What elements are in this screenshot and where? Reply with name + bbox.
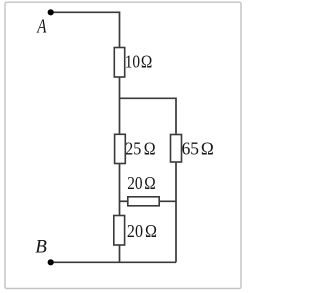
wire horizontal 20Ω to right branch junction [159, 200, 176, 202]
bottom rail wire from terminal B to right branch [54, 261, 177, 263]
resistor 25Ω body [115, 134, 126, 163]
wire terminal A to top-right corner and down to 10Ω [54, 12, 120, 47]
wire junction to 65Ω branch [120, 98, 177, 134]
svg-text:25Ω: 25Ω [125, 139, 155, 159]
resistor 20Ω vertical body [114, 216, 125, 246]
wire 65Ω bottom down to bottom rail [175, 162, 177, 263]
resistor 10Ω body [114, 48, 124, 78]
svg-text:B: B [35, 237, 47, 258]
svg-text:20Ω: 20Ω [127, 173, 155, 193]
wire 25Ω bottom to lower-left junction [119, 164, 121, 216]
wire vertical 20Ω bottom to bottom rail [119, 245, 121, 262]
svg-text:A: A [36, 15, 46, 38]
svg-text:10Ω: 10Ω [125, 51, 153, 71]
wire left junction to horizontal 20Ω [120, 200, 128, 202]
svg-text:20Ω: 20Ω [127, 221, 157, 241]
terminal B [48, 259, 54, 265]
resistor 20Ω horizontal body [128, 197, 159, 206]
wire 10Ω bottom through junction to 25Ω top [119, 77, 121, 134]
resistor 65Ω body [171, 135, 182, 163]
svg-text:65Ω: 65Ω [182, 138, 214, 158]
terminal A [48, 9, 54, 15]
